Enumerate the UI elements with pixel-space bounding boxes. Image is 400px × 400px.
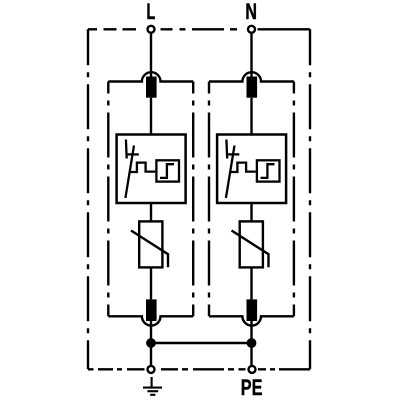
svg-text:N: N [245,0,257,25]
enclosure boundary left edge (dash-dot) [87,29,89,369]
wire L terminal to top contact [150,33,152,77]
junction node module 1 [146,338,156,348]
wire junction 2 to PE terminal [250,343,252,366]
svg-text:L: L [147,0,156,24]
wire junction 1 to earth terminal [150,343,152,366]
wire disconnector to varistor, module 1 [150,203,152,221]
wire N terminal to top contact [250,33,252,77]
wire bottom contact to junction, module 1 [150,321,152,343]
terminal N [248,26,255,33]
enclosure boundary right edge (dash-dot) [309,29,311,369]
module 2 box top edge with plug-contact arc [209,72,294,81]
wire contact to disconnector box, module 2 [250,98,252,135]
PE terminal circle [249,366,256,373]
terminal L [148,26,155,33]
plug-in contact pin top, module 2 [247,77,258,98]
enclosure boundary top edge (dash-dot) [88,28,310,30]
wire contact to disconnector box, module 1 [150,98,152,135]
wire junction bus [151,342,252,344]
module 1 box top edge with plug-contact arc [108,72,193,81]
enclosure boundary bottom edge (dash-dot) [88,368,310,370]
svg-text:PE: PE [241,376,263,400]
plug-in contact pin bottom, module 1 [146,299,157,321]
plug-in contact pin top, module 1 [146,77,157,98]
earth terminal circle [148,366,155,373]
module 2 box bottom edge with plug-contact arc [209,316,294,325]
wire disconnector to varistor, module 2 [250,203,252,221]
module 2 box left edge (dash-dot) [208,82,210,317]
plug-in contact pin bottom, module 2 [247,299,258,321]
thermal disconnector with status indicator U1 [117,135,186,204]
module 1 box left edge (dash-dot) [107,82,109,317]
module 2 box right edge (dash-dot) [293,82,295,317]
wire varistor to bottom contact, module 1 [150,267,152,299]
varistor RV1 [131,221,168,267]
module 1 box right edge (dash-dot) [192,82,194,317]
varistor RV2 [232,221,269,267]
wire varistor to bottom contact, module 2 [250,267,252,299]
module 1 box bottom edge with plug-contact arc [108,316,193,325]
thermal disconnector with status indicator U2 [217,135,286,204]
ground symbol [143,377,162,395]
junction node module 2 [247,338,257,348]
wire bottom contact to junction, module 2 [250,321,252,343]
